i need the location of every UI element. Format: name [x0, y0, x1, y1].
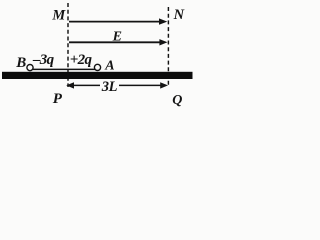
svg-text:A: A [104, 58, 114, 73]
svg-text:3L: 3L [101, 79, 118, 95]
svg-text:+2q: +2q [70, 52, 93, 68]
svg-text:M: M [51, 7, 66, 23]
conductor bar P-Q [2, 72, 193, 79]
rod between charges [33, 68, 95, 70]
charge B circle [27, 65, 33, 71]
dimension line 3L left segment [66, 82, 100, 88]
svg-text:Q: Q [172, 93, 182, 108]
field arrow 2 [69, 39, 168, 45]
dashed line M-P [67, 3, 69, 87]
svg-text:E: E [112, 29, 122, 44]
field arrow 1 [69, 18, 167, 24]
charge A circle [94, 64, 100, 70]
dashed line N-Q [167, 7, 169, 87]
dimension line 3L right segment [119, 82, 168, 88]
svg-text:P: P [53, 91, 63, 107]
svg-text:B: B [15, 55, 26, 71]
svg-text:–3q: –3q [32, 52, 55, 68]
svg-text:N: N [173, 7, 185, 23]
